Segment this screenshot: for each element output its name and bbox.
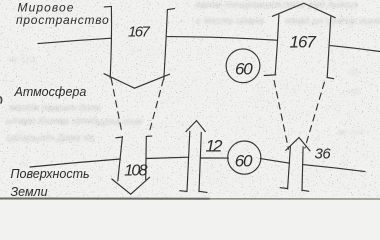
dashed flux right line to 36: [305, 82, 325, 148]
svg-text:167: 167: [290, 33, 317, 52]
108 down arrow: right tick: [146, 135, 151, 137]
big down arrow 167: right top tick: [167, 9, 174, 10]
108 down arrow: left side: [118, 137, 123, 181]
big down arrow 167: head V: [104, 74, 170, 89]
top boundary line right segment: [330, 46, 380, 52]
36 up arrow: right side: [302, 147, 303, 191]
36 up arrow: left side: [288, 147, 291, 189]
big up arrow 167: left foot: [264, 74, 276, 77]
top boundary line left segment: [38, 38, 112, 43]
dashed flux left line to 36: [274, 81, 288, 149]
108 down arrow: left tick: [116, 136, 123, 139]
12 up arrow: right side: [199, 133, 201, 192]
stray mark left edge: [1, 97, 2, 103]
bottom scan edge right part: [210, 198, 380, 200]
svg-text:тнвд рл шнеор линв: тнвд рл шнеор линв: [285, 16, 380, 27]
big down arrow 167: left top tick: [104, 5, 111, 8]
bottom scan edge: [0, 198, 210, 200]
surface line segment 108-12: [146, 157, 189, 158]
svg-text:ьтврн Кшнвр итоб: ьтврн Кшнвр итоб: [6, 115, 97, 127]
svg-text:Атмосфера: Атмосфера: [14, 85, 87, 99]
svg-text:60: 60: [235, 59, 253, 78]
36 up arrow: left foot: [280, 187, 288, 190]
big down arrow 167: right side: [164, 10, 168, 80]
big up arrow 167: right foot: [327, 78, 334, 79]
surface line segment 12-circle: [200, 157, 228, 159]
svg-text:36: 36: [315, 145, 332, 162]
svg-text:108: 108: [124, 163, 147, 180]
svg-text:12: 12: [206, 137, 223, 156]
108 down arrow: right side: [145, 136, 148, 179]
svg-text:шсщсыпт Днмз нп: шсщсыпт Днмз нп: [6, 133, 95, 144]
12 up arrow: left side: [187, 132, 190, 192]
dashed flux left line to 108: [111, 79, 122, 134]
faint show-through text rows: [6, 0, 380, 144]
lower circle 60: [228, 141, 261, 174]
12 up arrow: right foot: [199, 191, 207, 192]
svg-text:нк ыщ: нк ыщ: [8, 54, 37, 65]
svg-text:нб: нб: [348, 86, 360, 98]
big up arrow 167: roof: [272, 3, 335, 18]
big up arrow 167: left side: [275, 15, 279, 75]
upper circle 60: [226, 49, 260, 83]
12 up arrow: left foot: [180, 190, 187, 193]
svg-text:автм тещгчвшся пное ряд онгшл: автм тещгчвшся пное ряд онгшл: [196, 0, 358, 11]
36 up arrow: right foot: [302, 190, 309, 191]
big up arrow 167: right side: [327, 17, 331, 78]
svg-text:ол: ол: [348, 67, 359, 78]
svg-text:с посте иовна: с посте иовна: [196, 16, 264, 27]
svg-text:пространство: пространство: [16, 13, 109, 27]
svg-text:60: 60: [235, 152, 253, 171]
12 up arrow: head: [186, 121, 205, 132]
dashed flux right line to 108: [149, 80, 164, 134]
surface line segment circle-36: [260, 159, 289, 164]
svg-text:167: 167: [128, 23, 150, 40]
36 up arrow: head: [286, 138, 310, 151]
surface line right segment: [303, 165, 365, 172]
top boundary line middle segment: [167, 37, 277, 41]
108 down arrow: head V: [112, 177, 150, 194]
big down arrow 167: left side: [110, 7, 111, 78]
svg-text:вс шп: вс шп: [338, 127, 365, 138]
svg-text:Земли: Земли: [11, 185, 48, 199]
surface line left segment: [30, 159, 120, 167]
svg-text:молпя павснт боле: молпя павснт боле: [10, 102, 102, 114]
svg-text:Поверхность: Поверхность: [11, 167, 90, 181]
